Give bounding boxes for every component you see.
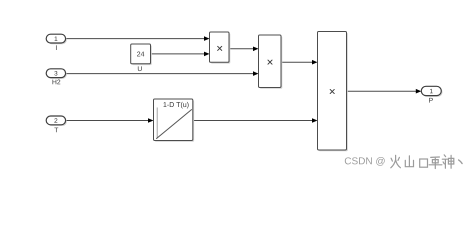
constant block U value 24	[131, 44, 152, 65]
wire product P2 to product P3	[281, 60, 318, 65]
inport 1 (I)	[46, 34, 67, 50]
lookup axis	[156, 108, 158, 139]
wire product P3 to outport P	[347, 89, 422, 94]
hanzi che (car)	[429, 157, 442, 169]
hanzi dun (dot stroke)	[459, 160, 463, 164]
hanzi shen (god)	[442, 155, 454, 168]
watermark text CSDN	[345, 155, 462, 169]
hanzi kou (mouth)	[420, 159, 428, 167]
wire constant U to product P1	[151, 52, 210, 57]
label U	[138, 66, 142, 71]
wire product P1 to product P2	[229, 47, 259, 52]
lookup curve	[156, 109, 192, 138]
1-D lookup table block	[154, 99, 195, 142]
hanzi shan (mountain)	[405, 156, 413, 167]
product block P3	[318, 32, 348, 152]
wire inport T to lookup table	[66, 118, 154, 123]
wire lookup table to product P3	[193, 118, 318, 123]
product block P2	[259, 35, 283, 89]
inport 2 (T)	[46, 116, 67, 132]
product block P1	[210, 32, 231, 64]
wire inport I to product P1	[66, 36, 210, 41]
hanzi huo (fire)	[391, 155, 401, 168]
wire inport H2 to product P2	[66, 71, 259, 76]
inport 3 (H2)	[46, 69, 67, 85]
outport 1 (P)	[421, 86, 442, 102]
